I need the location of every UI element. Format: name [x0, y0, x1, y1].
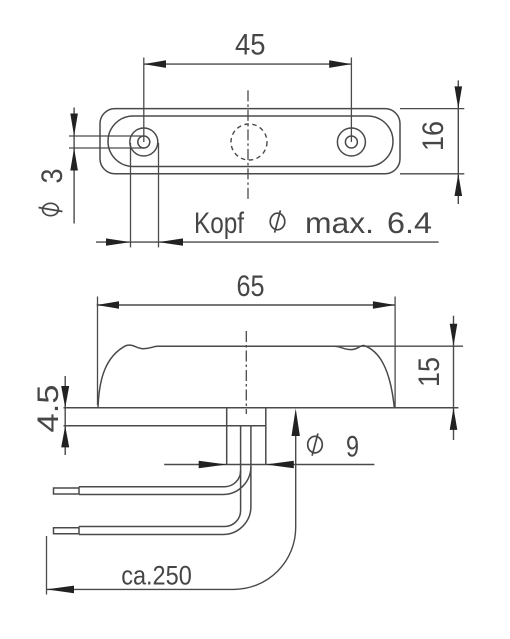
base plate top edge — [64, 407, 459, 409]
right screw head circle ø6.4 — [337, 128, 365, 156]
dimension ø9: right arrow — [266, 461, 294, 469]
top view: inner lens outline — [108, 116, 393, 167]
side view: dome left slope with wave — [98, 345, 158, 407]
svg-text:16: 16 — [417, 121, 450, 151]
base plate bottom edge — [64, 425, 266, 427]
dimension ca.250: left arrow — [47, 586, 75, 594]
dimension 45: left extension line — [143, 58, 145, 143]
side view: dome top edge — [157, 345, 336, 347]
top view vertical center line — [247, 90, 249, 201]
side view: vertical center line — [245, 331, 247, 414]
dimension Kopf: left arrow — [106, 238, 131, 245]
dimension 15: top arrow — [450, 324, 458, 346]
dimension ca.250: extension line — [46, 536, 48, 595]
wire channel right line with lower bend (wire2 bottom) — [79, 426, 251, 535]
dimension ca.250: up arrow at plate — [292, 409, 300, 437]
left screw head circle ø6.4 — [130, 128, 158, 156]
left mounting hole ø3 — [138, 136, 150, 148]
dimension ø3: top arrow — [70, 114, 78, 137]
cable stem right edge — [265, 408, 267, 465]
svg-text:45: 45 — [235, 29, 266, 62]
dimension Kopf: right extension line — [158, 143, 160, 247]
wire1 bottom line branch — [79, 467, 251, 495]
svg-text:15: 15 — [413, 357, 446, 387]
dimension 4.5: top arrow — [61, 386, 69, 408]
svg-text:3: 3 — [36, 169, 69, 184]
svg-text:4.5: 4.5 — [32, 385, 65, 433]
dimension 45: right extension line — [350, 58, 352, 143]
svg-text:ca.250: ca.250 — [121, 561, 192, 591]
right mounting hole ø3 — [345, 136, 357, 148]
dimension 16: bottom arrow — [455, 174, 463, 196]
dimension 65: right extension line — [394, 297, 396, 408]
text ø3 (rotated): diameter symbol — [39, 203, 63, 215]
dimension 45: right arrow — [329, 60, 351, 68]
wire1 top line branch — [79, 471, 241, 487]
dimension 45: left arrow — [144, 60, 166, 68]
dimension 16: top arrow — [455, 86, 463, 108]
dimension 45: dimension line — [144, 63, 352, 65]
wire2 stripped tip — [54, 527, 80, 535]
dimension ø9: dimension line — [164, 464, 374, 466]
dimension 16: dimension line — [457, 80, 459, 204]
dimension Kopf: right arrow — [159, 238, 184, 245]
dimension 15: dimension line — [453, 316, 455, 440]
dimension 16: top extension line — [400, 108, 464, 110]
svg-text:9: 9 — [346, 431, 359, 464]
svg-text:Kopf: Kopf — [194, 207, 245, 240]
center lamp circle (dashed) — [231, 124, 267, 160]
svg-text:max.: max. — [305, 207, 374, 240]
wire channel left line with lower bend (wire2 top) — [79, 426, 241, 527]
svg-text:6.4: 6.4 — [387, 207, 432, 240]
dimension Kopf: left extension line — [130, 143, 132, 247]
svg-text:65: 65 — [237, 270, 265, 303]
dimension ø3: bottom extension line — [69, 147, 144, 149]
dimension Kopf: dimension line — [96, 241, 439, 243]
dimension ø3: top extension line — [69, 135, 144, 137]
dimension ø3: bottom arrow — [70, 148, 78, 171]
side view: extension line of dim 15 over right wave — [336, 345, 463, 347]
dimension 65: left arrow — [97, 301, 119, 309]
dimension 65: dimension line — [97, 304, 395, 306]
dimension 15: bottom arrow — [450, 408, 458, 430]
dimension ø9: left arrow — [199, 461, 227, 469]
diameter symbol in Kopf line — [270, 210, 285, 232]
dimension ca.250: dimension line with bend up — [47, 436, 296, 589]
text ø9: diameter symbol — [308, 434, 323, 456]
side view: right blend wave and right slope — [334, 345, 394, 407]
dimension 4.5: dimension line — [64, 376, 66, 455]
dimension ø3: dimension line — [73, 108, 75, 224]
dimension 65: left extension line — [97, 297, 99, 406]
wire1 stripped tip — [54, 487, 80, 495]
top view: outer housing outline — [100, 109, 400, 174]
dimension 65: right arrow — [373, 301, 395, 309]
cable stem left edge — [226, 408, 228, 465]
dimension 16: bottom extension line — [400, 173, 464, 175]
dimension 4.5: bottom arrow — [61, 426, 69, 448]
